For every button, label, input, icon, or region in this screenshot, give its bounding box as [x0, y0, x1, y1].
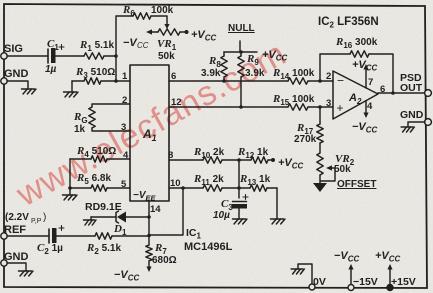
- wire REF to C2: [7, 235, 49, 237]
- wire R10/R11 node tie: [238, 160, 240, 198]
- resistor R6: [133, 13, 151, 19]
- wire node down to pin1: [115, 56, 117, 81]
- wire node up to R6: [116, 16, 133, 56]
- capacitor C3: [233, 201, 247, 203]
- wire R3 left to ground: [71, 81, 73, 92]
- capacitor C1: [47, 49, 49, 63]
- resistor R15: [288, 104, 308, 110]
- resistor R13: [250, 185, 267, 191]
- resistor R7: [146, 245, 152, 261]
- wire pin8 row: [169, 159, 272, 161]
- capacitor C2: [48, 229, 50, 243]
- junction R8/pin6: [222, 79, 226, 83]
- wire +Vcc bar above R8 R9: [224, 51, 257, 53]
- scan noise texture: [0, 0, 1, 1]
- resistor R12: [251, 157, 268, 163]
- node junction R1/R6: [114, 54, 118, 58]
- wire pin10 node down to pin14 node: [149, 188, 183, 235]
- ground VR2: [313, 183, 327, 192]
- wire pin2 loop RG: [92, 104, 130, 107]
- node R12 +Vcc tap: [271, 158, 275, 162]
- op-amp A2 triangle: [333, 71, 378, 119]
- wire RG to pin3: [92, 128, 130, 131]
- -15V terminal arrow: [350, 268, 352, 287]
- wire pin12 line to opamp: [169, 106, 288, 108]
- wire pin10 row: [169, 187, 277, 189]
- potentiometer VR2: [317, 153, 323, 175]
- node R10/R12 junction: [237, 158, 241, 162]
- resistor R8: [221, 56, 227, 77]
- terminal PSD OUT: [425, 90, 432, 97]
- 0V bump + ground: [298, 264, 312, 287]
- wire stub above bar: [239, 41, 241, 52]
- resistor R17: [319, 107, 321, 153]
- node R11/R13 junction: [237, 186, 241, 190]
- zener diode D1 RD9.1E: [91, 216, 149, 218]
- wire R1 to node: [104, 55, 116, 57]
- potentiometer VR1: [158, 29, 180, 35]
- resistor R5 row: [70, 187, 130, 189]
- wire pin14 down: [148, 201, 150, 245]
- wire C2 to R2: [57, 235, 96, 237]
- junction R9/pin12: [239, 105, 243, 109]
- wire GND lower to ground: [7, 263, 26, 271]
- node R9 top: [239, 50, 243, 54]
- node feedback/output: [391, 91, 395, 95]
- wire VR1 left lead w/ arrow: [150, 31, 158, 33]
- terminal REF: [1, 233, 7, 239]
- wire SIG to C1: [7, 55, 48, 57]
- wire C1 to R1: [56, 55, 85, 57]
- terminal GND upper: [1, 78, 7, 84]
- wire pin1 stub: [116, 80, 130, 82]
- +15V terminal arrow: [389, 268, 391, 287]
- resistor R3: [84, 78, 101, 84]
- wire R13 down to ground: [276, 188, 278, 219]
- op-amp A1 box (MC1496): [130, 65, 169, 201]
- wire GND right to ground: [408, 122, 425, 127]
- terminal GND right: [425, 119, 432, 126]
- junction R17/pin3: [318, 105, 322, 109]
- ground D1: [90, 217, 92, 220]
- pin7 +Vcc arrow: [365, 68, 367, 88]
- wire R4-R5 left tie + ground: [69, 159, 71, 195]
- wire VR1 right lead: [180, 31, 187, 33]
- terminal SIG: [1, 53, 7, 59]
- wire R6 to VR1 wiper: [151, 16, 167, 25]
- resistor R10: [203, 157, 222, 163]
- resistor R1: [84, 53, 104, 59]
- node REF/pin14: [147, 234, 151, 238]
- node R5 left: [68, 186, 72, 190]
- VR2 wiper loop: [320, 168, 335, 183]
- resistor R2: [95, 233, 112, 239]
- resistor R11: [203, 185, 222, 191]
- resistor RG: [89, 107, 95, 128]
- wire pin6 line to opamp: [169, 80, 288, 82]
- watermark: [10, 35, 293, 215]
- resistor R4 row: [70, 158, 130, 160]
- ground (GND upper): [22, 88, 35, 90]
- wire GND terminal: [7, 81, 28, 89]
- junction feedback/pin2: [318, 79, 322, 83]
- pin4 -Vcc arrow: [365, 101, 367, 114]
- node D1/pin14: [147, 215, 151, 219]
- resistor R9: [238, 56, 244, 77]
- resistor R14: [288, 78, 308, 84]
- node pin10 branch: [181, 186, 185, 190]
- output wire pin6: [378, 92, 425, 94]
- node junction pin1: [114, 79, 118, 83]
- node VR1 +Vcc: [185, 30, 189, 34]
- terminal GND lower: [1, 260, 7, 266]
- feedback loop R16: [320, 54, 393, 93]
